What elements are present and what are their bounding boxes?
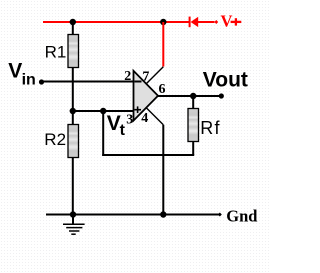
svg-text:in: in: [22, 72, 36, 89]
wire feedback horizontal: [102, 154, 194, 156]
label Gnd: [226, 206, 257, 225]
junction output to Rf: [190, 93, 196, 99]
label Vin: [8, 60, 36, 89]
svg-text:V: V: [8, 60, 22, 83]
wire divider column R1 to R2: [72, 68, 74, 125]
terminal Vin dot: [39, 79, 44, 84]
svg-text:R1: R1: [45, 42, 67, 61]
label R1: [45, 42, 67, 61]
junction ground rail at R2: [70, 211, 76, 217]
svg-text:3: 3: [126, 113, 133, 128]
svg-text:Vout: Vout: [203, 68, 248, 91]
terminal V+: [214, 20, 218, 24]
junction node Vt feedback tap: [100, 108, 106, 114]
pin number 7: [142, 69, 149, 84]
svg-text:t: t: [120, 122, 126, 139]
resistor Rf: [188, 109, 199, 142]
terminal Gnd: [218, 213, 222, 217]
label Rf: [200, 118, 220, 138]
ground symbol: [63, 215, 85, 235]
wire pin 4 down to ground: [162, 125, 164, 215]
wire Rf bottom stub: [192, 142, 194, 156]
svg-text:6: 6: [159, 82, 166, 97]
op-amp U1: [134, 71, 159, 121]
junction on V+ rail above op-amp pin 7: [160, 19, 166, 25]
svg-text:4: 4: [141, 111, 148, 126]
label Vt: [107, 112, 126, 139]
pin number 6: [159, 82, 166, 97]
junction ground rail at pin 4: [160, 211, 166, 217]
wire pin 4 diagonal: [146, 108, 163, 125]
wire Rf top stub: [192, 96, 194, 109]
wire feedback vertical up to node Vt: [102, 111, 104, 156]
diode D1: [189, 17, 199, 28]
resistor R1: [68, 35, 79, 68]
svg-text:R2: R2: [44, 130, 66, 149]
wire R1 top stub: [72, 22, 74, 35]
svg-text:Gnd: Gnd: [226, 206, 257, 225]
wire ground rail: [46, 214, 219, 216]
wire output pin 6: [158, 95, 221, 97]
wire pin 7 diagonal: [146, 67, 163, 84]
label Vout: [203, 68, 248, 91]
wire V+ rail right segment: [198, 21, 215, 23]
resistor R2: [68, 125, 79, 158]
svg-text:2: 2: [124, 69, 131, 84]
label R2: [44, 130, 66, 149]
pin number 3: [126, 113, 133, 128]
wire R2 bottom to ground rail: [72, 158, 74, 215]
terminal Vout dot: [219, 93, 224, 98]
junction on V+ rail above R1: [70, 19, 76, 25]
wire node Vt to pin 3: [73, 110, 134, 112]
label V+: [221, 12, 242, 31]
wire V+ rail: [43, 21, 189, 23]
wire Vin to pin 2: [43, 81, 134, 83]
pin number 4: [141, 111, 148, 126]
pin number 2: [124, 69, 131, 84]
junction node Vt at divider: [70, 108, 76, 114]
svg-text:Rf: Rf: [200, 118, 220, 138]
wire red supply drop to pin 7: [162, 22, 164, 67]
